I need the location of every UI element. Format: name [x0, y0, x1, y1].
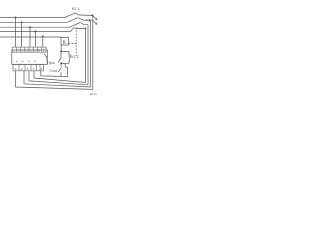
wire coil bottom [60, 45, 62, 51]
wire pole4 output [74, 27, 86, 30]
wire U3 [29, 25, 88, 85]
wire L4 bus [0, 31, 71, 33]
svg-text:3: 3 [15, 67, 17, 71]
terminal numbers top [13, 48, 44, 52]
wire L3 phase bus [0, 26, 70, 28]
junction dot L4 [35, 31, 37, 33]
junction dot out1 [91, 14, 93, 16]
arrow diagonal from out2 [93, 21, 96, 24]
contact K1.2 blade [69, 55, 71, 63]
junction dot coil branch top [60, 50, 62, 52]
dashed link coil to contacts [69, 28, 77, 57]
svg-text:К1.2: К1.2 [71, 55, 79, 59]
wire drop terminal1 [15, 18, 17, 48]
wire pole3 output [80, 23, 88, 25]
relay coil K box [61, 37, 69, 45]
contact K1.1 pole2 blade [67, 18, 78, 23]
svg-text:Стоп: Стоп [49, 69, 57, 73]
device body box [12, 50, 48, 64]
junction dot coil branch bottom [60, 62, 62, 64]
wire terminal5 bottom run [41, 71, 68, 77]
svg-text:К: К [63, 40, 66, 46]
arrow on out2 [86, 19, 89, 21]
wire drop terminal5 [42, 37, 44, 48]
wire L5 bus to coil [0, 36, 61, 38]
junction dot L3 [29, 26, 31, 28]
contact K1.1 pole1 blade [65, 13, 76, 18]
svg-text:elk.ru: elk.ru [90, 92, 97, 96]
contact Pusk blade [58, 58, 61, 63]
device internal contact hook [44, 54, 47, 62]
wire K1.2 holding loop [61, 52, 69, 64]
junction dot L2 [21, 21, 23, 23]
wire stop chain [60, 63, 62, 76]
wire drop terminal2 [21, 22, 23, 47]
wire L2 phase bus [0, 21, 67, 23]
wire pole2 output [78, 18, 93, 21]
wire U1 outermost [16, 15, 93, 89]
device internal ticks [16, 61, 35, 62]
svg-text:8: 8 [41, 67, 43, 71]
wire L1 phase bus [0, 17, 65, 19]
wire drop terminal3 [29, 27, 31, 47]
wire U4 [34, 28, 86, 82]
svg-text:К1.1: К1.1 [72, 7, 80, 11]
svg-text:Пуск: Пуск [47, 61, 55, 65]
terminal row bottom [13, 65, 44, 71]
wire pole1 output [75, 13, 92, 16]
terminal numbers bottom [15, 67, 43, 71]
junction dot L1 [15, 17, 17, 19]
contact K1.1 pole3 blade [70, 23, 81, 28]
junction dot out2 [89, 19, 91, 21]
terminal row top [12, 47, 46, 52]
junction dot L5 [42, 36, 44, 38]
wire U2 [24, 20, 90, 87]
svg-text:4: 4 [21, 67, 23, 71]
wire stair from junction [61, 63, 67, 76]
junction dot out4 [85, 28, 87, 30]
wire drop terminal4 [35, 32, 37, 48]
svg-text:7: 7 [33, 67, 35, 71]
contact K1.1 pole4 jog [71, 28, 74, 32]
svg-text:5: 5 [27, 67, 29, 71]
contact Stop blade [58, 67, 61, 72]
arrow to load diagonal [92, 15, 96, 19]
